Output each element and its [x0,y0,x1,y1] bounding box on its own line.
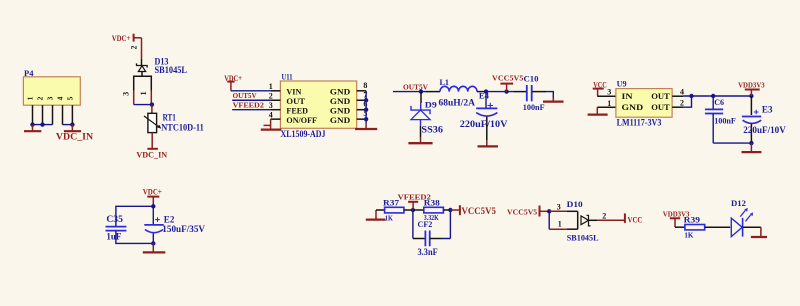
IC U11 XL1509-ADJ [280,71,356,139]
junction E3 top [749,94,753,98]
svg-text:2: 2 [680,99,684,108]
svg-text:GND: GND [622,102,644,112]
svg-text:3.3nF: 3.3nF [418,248,438,258]
junction R38 right [448,208,452,212]
svg-text:VDD3V3: VDD3V3 [738,80,765,89]
wire C35 bottom [116,231,153,244]
junction E4 [484,89,488,93]
svg-text:LM1117-3V3: LM1117-3V3 [617,117,662,127]
inductor L1 68uH/2A [426,77,485,109]
P4 pin 4 [62,105,64,124]
power port VDC_IN at P4 [56,125,94,142]
svg-text:C6: C6 [714,97,724,107]
wire to D10 pin 1 [549,228,567,230]
U11 pin 5 [357,109,368,119]
diode D13 SB1045L [122,57,187,96]
U11 pin 3 [269,101,281,110]
junction E2 top [151,204,155,208]
ground under E3 [742,143,762,152]
svg-text:U11: U11 [282,71,293,81]
junction U9 out [689,94,693,98]
connector P4 [23,68,80,105]
svg-text:150uF/35V: 150uF/35V [162,225,205,235]
wire VFEED2 to U11 pin3 [232,109,270,111]
wire P4 pins 1-3 [33,124,53,126]
svg-text:GND: GND [330,106,350,116]
svg-text:D12: D12 [731,198,746,208]
wire down to RT1 [151,105,153,114]
svg-text:D9: D9 [425,100,438,110]
resistor R38 3.32K [413,197,451,222]
U11 pin 4 [269,110,281,119]
junction P4 pin5 [70,122,74,126]
svg-text:3: 3 [122,92,131,96]
wire D12 to ground [743,226,761,228]
wire OUT5V to U11 pin2 [232,99,270,101]
svg-text:C10: C10 [524,74,540,84]
svg-text:3: 3 [46,96,55,100]
wire C10 to ground [546,92,553,98]
IC U9 LM1117-3V3 [616,79,672,128]
svg-text:2: 2 [36,96,45,100]
ground under E2 [143,243,166,252]
wire U9 pin2 up [683,96,691,107]
power port VCC5V5 at D10 [507,206,549,217]
svg-text:100nF: 100nF [523,102,545,112]
junction E3 bottom [749,141,753,145]
wire to C35 [116,206,153,226]
power port VDC+ at E2 [143,187,162,206]
power port VCC at U9 [593,80,607,96]
junction P4 pin2 [40,122,44,126]
svg-text:FEED: FEED [286,106,308,116]
power port VCC5V5 top [492,74,523,92]
svg-text:220uF/10V: 220uF/10V [460,120,508,130]
svg-text:1: 1 [607,99,611,108]
U9 pin 3 [597,88,616,97]
svg-text:GND: GND [330,115,350,125]
wire E2 top [152,206,154,225]
junction U11 pin6 [364,108,368,112]
U11 pin 2 [269,91,281,100]
svg-text:ON/OFF: ON/OFF [286,115,317,125]
power port VDD3V3 top [738,80,765,96]
svg-text:1: 1 [26,96,35,100]
wire L1 to C10 [485,91,515,93]
capacitor E4 220uF/10V [460,90,508,140]
resistor R39 1K [675,215,730,240]
wire D10 to VCC [597,219,625,221]
svg-text:RT1: RT1 [163,113,177,123]
svg-text:GND: GND [330,87,350,97]
svg-text:1: 1 [269,82,273,91]
svg-text:1K: 1K [684,231,693,240]
junction D10 input [547,209,551,213]
svg-text:2: 2 [130,46,139,50]
U9 pin 2 [672,99,684,108]
capacitor C10 100nF [514,74,546,112]
wire OUT5V rail [393,91,426,93]
svg-text:VCC5V5: VCC5V5 [507,208,537,217]
U9 pin 4 [672,87,684,96]
junction VCC5V5 [504,89,508,93]
svg-text:VDC_IN: VDC_IN [136,151,167,160]
svg-text:220uF/10V: 220uF/10V [743,126,786,136]
svg-text:OUT5V: OUT5V [403,82,428,91]
svg-text:5: 5 [65,96,74,100]
svg-text:E3: E3 [762,105,773,115]
ground at P4 [24,125,41,132]
capacitor E3 220uF/10V [742,96,786,143]
U11 pin 7 [357,90,368,100]
svg-text:E4: E4 [479,90,490,100]
svg-text:1: 1 [558,220,562,229]
svg-text:VCC5V5: VCC5V5 [462,206,497,216]
junction C6 top [711,94,715,98]
power port VDC_IN under RT1 [136,149,167,160]
svg-text:VFEED2: VFEED2 [233,100,265,109]
svg-text:4: 4 [56,96,65,100]
svg-text:OUT5V: OUT5V [233,91,257,100]
svg-text:3: 3 [557,203,561,212]
ground under E4 [478,141,499,147]
svg-text:VCC: VCC [628,216,643,225]
U9 pin 1 [597,99,616,108]
svg-text:1: 1 [139,91,148,95]
svg-text:4: 4 [680,87,684,96]
wire U11 GND pins [365,91,367,125]
capacitor C6 100nF [705,96,736,143]
junction U11 pin5 [364,117,368,121]
svg-text:R38: R38 [424,197,441,207]
U11 pin 6 [357,100,368,110]
wire joining D13 bottom [134,104,152,106]
svg-text:VDC+: VDC+ [112,34,131,43]
thermistor RT1 NTC10D-11 [144,113,204,133]
svg-text:R39: R39 [684,215,701,225]
LED D12 [731,198,753,237]
capacitor E2 150uF/35V [144,214,205,243]
svg-text:E2: E2 [164,214,175,224]
svg-text:OUT: OUT [651,102,670,112]
svg-text:SB1045L: SB1045L [155,65,188,75]
wire D13 pin1 down [150,91,152,105]
P4 pin 5 [71,105,73,124]
svg-text:8: 8 [363,81,367,90]
diode D10 SB1045L [557,199,606,243]
svg-text:VCC5V5: VCC5V5 [492,74,523,83]
svg-text:68uH/2A: 68uH/2A [439,99,476,109]
svg-text:OUT: OUT [651,91,670,101]
svg-text:1K: 1K [385,213,393,222]
junction E2 bottom [151,241,155,245]
capacitor C35 1uF [106,214,127,243]
svg-text:NTC10D-11: NTC10D-11 [161,123,204,133]
ground right of C10 [543,98,564,102]
power port VDD3V3 at R39 [663,210,690,228]
U11 pin 1 [269,82,281,91]
power port VFEED2 at R37 [398,193,431,210]
junction U11 pin7 [364,98,368,102]
wire RT1 down [151,133,153,149]
power port VCC5V5 at R38 [450,205,496,216]
power port VCC right of D10 [625,213,643,224]
wire U9 output rail [683,95,751,97]
ground left of R37 [366,210,386,220]
ground right of D12 [751,227,767,237]
wire VDC+ to U11 pin1 [231,90,271,92]
svg-text:D10: D10 [567,199,584,209]
junction D13-RT1 [150,102,154,106]
svg-text:IN: IN [622,91,634,101]
svg-text:SB1045L: SB1045L [567,233,599,243]
svg-text:SS36: SS36 [421,126,443,136]
wire P4 pins 4-5 [63,124,73,126]
svg-text:2: 2 [269,91,273,100]
power port VDC+ at D13 [112,34,142,43]
P4 pin 1 [32,105,34,124]
junction VFEED2 node [411,208,415,212]
junction D9 [419,89,423,93]
resistor R37 1K [376,197,413,222]
svg-text:3: 3 [607,88,611,97]
ground at U11 right [355,124,377,129]
svg-text:P4: P4 [24,68,34,78]
svg-text:VDC_IN: VDC_IN [56,131,94,141]
capacitor CF2 3.3nF [413,210,451,258]
svg-text:VDC+: VDC+ [143,187,162,196]
P4 pin 3 [52,105,54,124]
svg-text:1uF: 1uF [106,233,121,243]
svg-text:CF2: CF2 [418,219,433,229]
U11 pin 8 [357,81,368,91]
ground at U11 pin 4 [261,119,282,129]
wire VDC+ down to D13 [141,38,143,59]
svg-text:XL1509-ADJ: XL1509-ADJ [281,129,326,139]
svg-text:C35: C35 [106,214,123,224]
svg-text:L1: L1 [440,77,450,87]
svg-text:2: 2 [602,211,606,220]
svg-text:U9: U9 [617,79,628,89]
ground at U9 pin 1 [588,107,608,114]
power port VDC+ at U11 [224,73,242,91]
P4 pin 2 [42,105,44,124]
wire C6 bottom to E3 bottom [713,142,751,144]
svg-text:4: 4 [269,110,273,119]
wire down at D10 [548,211,550,229]
wire D13 pin3 down [133,91,135,105]
junction P4 pin1 [30,122,34,126]
diode D9 SS36 [411,92,443,138]
svg-text:100nF: 100nF [714,116,736,126]
svg-text:3: 3 [269,101,273,110]
wire to D10 pin 3 [549,210,567,212]
ground under D9 [408,138,432,144]
svg-text:VIN: VIN [286,87,302,97]
